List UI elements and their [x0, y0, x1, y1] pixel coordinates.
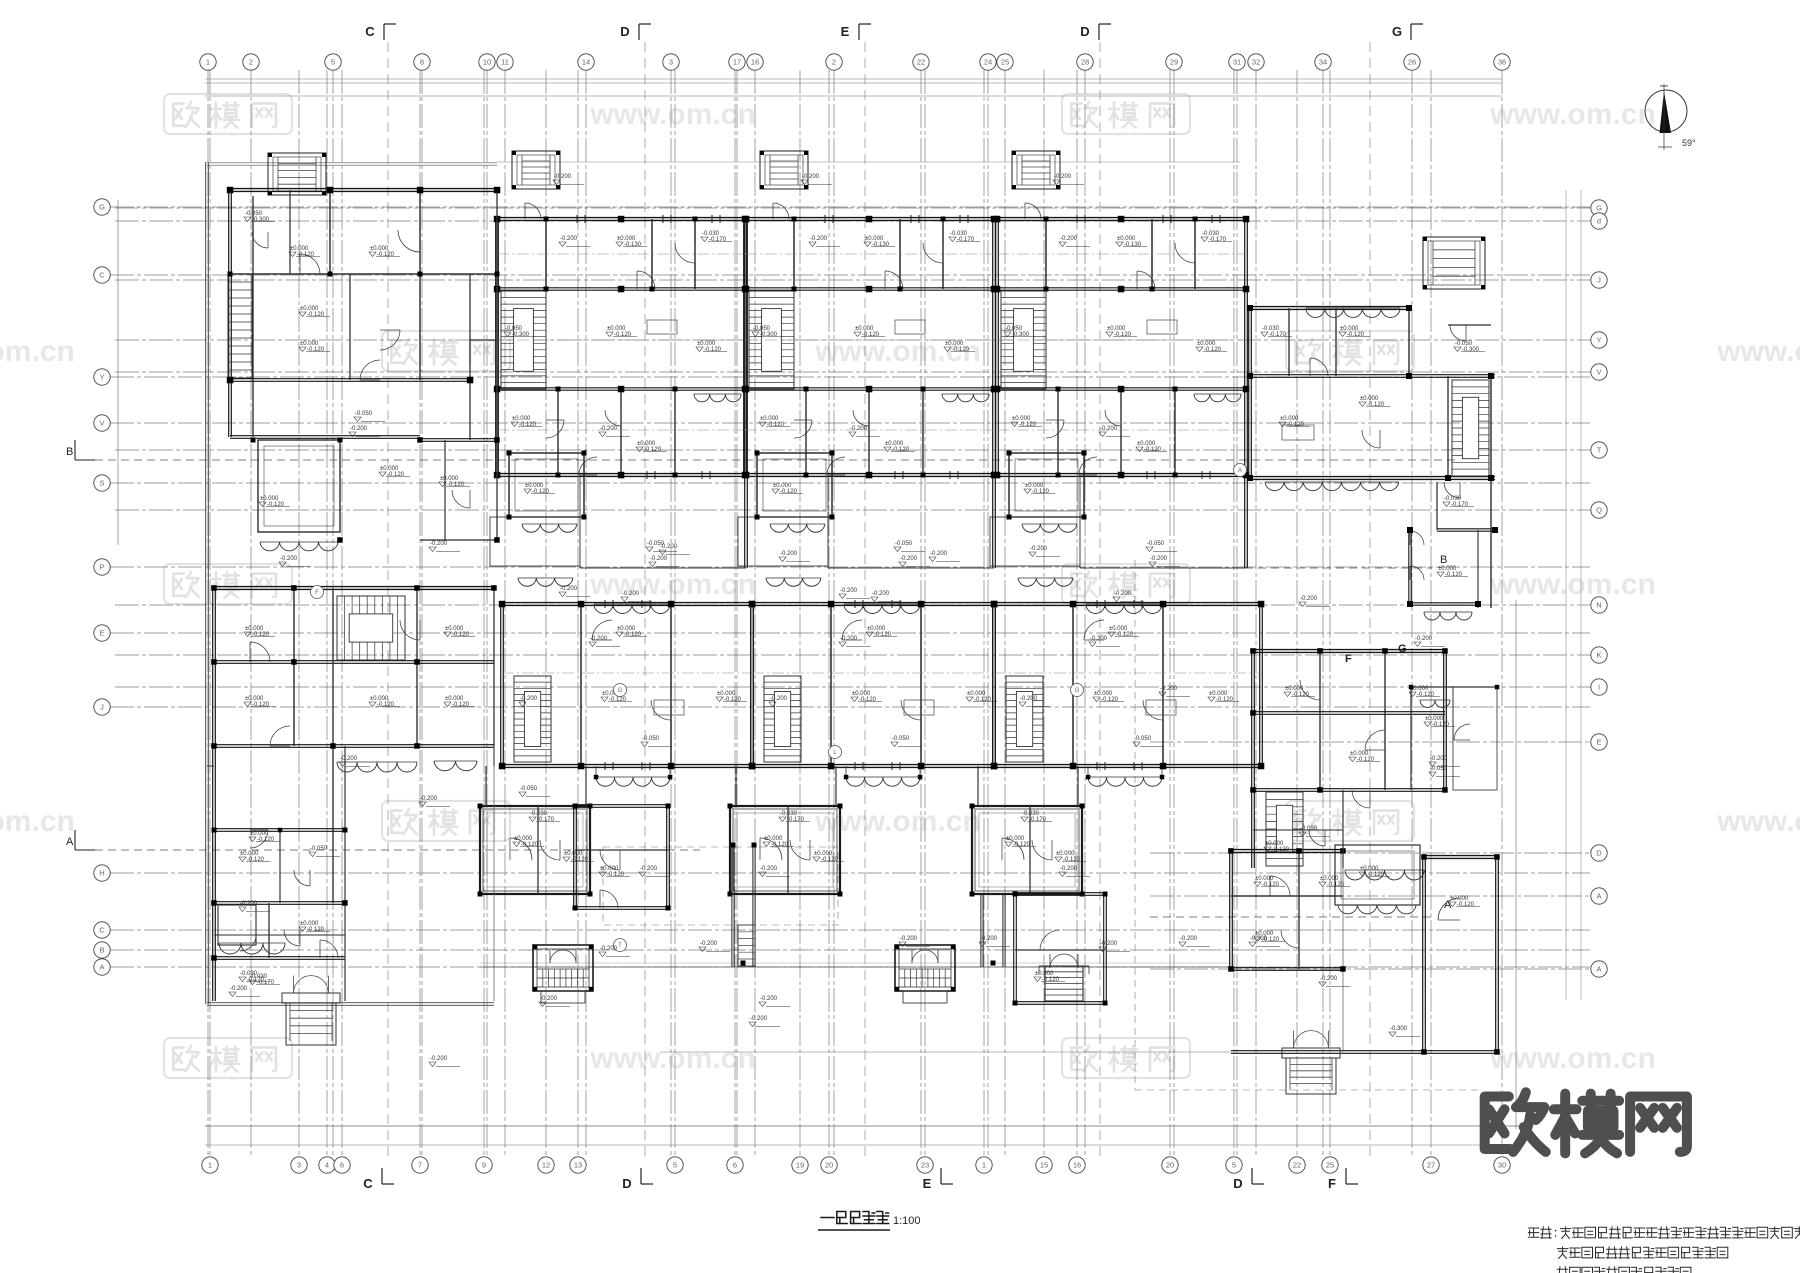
- svg-text:Y: Y: [1596, 336, 1601, 345]
- svg-text:13: 13: [574, 1161, 582, 1170]
- svg-text:-0.120: -0.120: [519, 422, 537, 428]
- svg-text:www.om.cn: www.om.cn: [1716, 805, 1800, 838]
- svg-text:A: A: [1238, 468, 1242, 474]
- svg-text:-0.170: -0.170: [257, 980, 275, 986]
- svg-text:-0.200: -0.200: [900, 936, 918, 942]
- svg-text:31: 31: [1233, 58, 1241, 67]
- svg-text:-0.200: -0.200: [540, 996, 558, 1002]
- svg-text:-0.300: -0.300: [760, 332, 778, 338]
- svg-text:-0.130: -0.130: [872, 242, 890, 248]
- svg-text:-0.200: -0.200: [554, 174, 572, 180]
- svg-text:34: 34: [1319, 58, 1327, 67]
- svg-text:-0.200: -0.200: [850, 426, 868, 432]
- svg-text:24: 24: [984, 58, 992, 67]
- svg-text:-0.120: -0.120: [1116, 632, 1134, 638]
- svg-text:-0.200: -0.200: [700, 941, 718, 947]
- svg-text:P: P: [99, 563, 104, 572]
- svg-text:11: 11: [501, 58, 509, 67]
- svg-text:www.om.cn: www.om.cn: [589, 98, 756, 131]
- svg-text:5: 5: [1232, 1161, 1236, 1170]
- svg-text:-0.130: -0.130: [624, 242, 642, 248]
- svg-text:-0.200: -0.200: [1090, 636, 1108, 642]
- svg-text:I: I: [1598, 683, 1600, 692]
- svg-text:-0.120: -0.120: [1445, 572, 1463, 578]
- svg-text:27: 27: [1427, 1161, 1435, 1170]
- svg-text:-0.120: -0.120: [1101, 697, 1119, 703]
- svg-text:-0.200: -0.200: [1060, 236, 1078, 242]
- svg-text:-0.120: -0.120: [1204, 347, 1222, 353]
- svg-text:10: 10: [483, 58, 491, 67]
- svg-text:B: B: [99, 946, 104, 955]
- svg-text:-0.200: -0.200: [872, 591, 890, 597]
- svg-text:-0.170: -0.170: [537, 817, 555, 823]
- svg-text:15: 15: [1040, 1161, 1048, 1170]
- svg-text:-0.120: -0.120: [874, 632, 892, 638]
- svg-text:20: 20: [1166, 1161, 1174, 1170]
- svg-text:14: 14: [582, 58, 590, 67]
- svg-text:-0.120: -0.120: [1327, 882, 1345, 888]
- svg-text:1: 1: [982, 1161, 986, 1170]
- svg-text:-0.120: -0.120: [307, 312, 325, 318]
- svg-text:2: 2: [832, 58, 836, 67]
- svg-text:-0.200: -0.200: [1054, 174, 1072, 180]
- svg-text:Q: Q: [1596, 506, 1602, 515]
- svg-text:-0.050: -0.050: [520, 786, 538, 792]
- svg-text:-0.200: -0.200: [280, 556, 298, 562]
- svg-text:-0.200: -0.200: [240, 901, 258, 907]
- svg-text:-0.200: -0.200: [1430, 756, 1448, 762]
- svg-text:6: 6: [733, 1161, 737, 1170]
- svg-text:-0.170: -0.170: [709, 237, 727, 243]
- svg-text:-0.200: -0.200: [1415, 636, 1433, 642]
- svg-text:-0.050: -0.050: [1300, 826, 1318, 832]
- svg-text:d: d: [1597, 217, 1601, 226]
- svg-text:-0.050: -0.050: [355, 411, 373, 417]
- svg-text:B: B: [1440, 554, 1447, 566]
- svg-text:16: 16: [1073, 1161, 1081, 1170]
- svg-text:K: K: [1596, 651, 1601, 660]
- svg-text:G: G: [1075, 688, 1080, 694]
- svg-text:-0.200: -0.200: [560, 236, 578, 242]
- svg-text:3: 3: [297, 1161, 301, 1170]
- svg-text:-0.120: -0.120: [307, 347, 325, 353]
- svg-text:25: 25: [1001, 58, 1009, 67]
- svg-text:23: 23: [921, 1161, 929, 1170]
- svg-text:-0.120: -0.120: [1287, 422, 1305, 428]
- svg-text:J: J: [100, 703, 104, 712]
- svg-text:C: C: [99, 926, 105, 935]
- svg-text:E: E: [923, 1176, 932, 1191]
- svg-text:25: 25: [1326, 1161, 1334, 1170]
- svg-text:-0.200: -0.200: [650, 556, 668, 562]
- svg-text:D: D: [1080, 24, 1089, 39]
- svg-text:F: F: [1328, 1176, 1336, 1191]
- svg-text:-0.200: -0.200: [1300, 596, 1318, 602]
- svg-text:-0.300: -0.300: [1012, 332, 1030, 338]
- svg-text:T: T: [618, 943, 622, 949]
- svg-text:-0.120: -0.120: [452, 632, 470, 638]
- svg-text:D: D: [622, 1176, 631, 1191]
- svg-text:-0.170: -0.170: [1451, 502, 1469, 508]
- svg-text:-0.120: -0.120: [1063, 857, 1081, 863]
- svg-text:C: C: [363, 1176, 373, 1191]
- svg-text:-0.200: -0.200: [1030, 546, 1048, 552]
- svg-text:20: 20: [825, 1161, 833, 1170]
- svg-text:-0.200: -0.200: [600, 946, 618, 952]
- svg-text:-0.120: -0.120: [821, 857, 839, 863]
- svg-text:-0.120: -0.120: [1019, 422, 1037, 428]
- svg-text:F: F: [1345, 653, 1352, 665]
- svg-text:-0.200: -0.200: [590, 636, 608, 642]
- svg-text:V: V: [99, 419, 104, 428]
- svg-text:8: 8: [420, 58, 424, 67]
- svg-text:E: E: [99, 629, 104, 638]
- svg-text:G: G: [1392, 24, 1402, 39]
- svg-text:-0.120: -0.120: [1417, 692, 1435, 698]
- svg-text:-0.200: -0.200: [1250, 936, 1268, 942]
- svg-text:-0.050: -0.050: [1134, 736, 1152, 742]
- svg-text:-0.120: -0.120: [1262, 882, 1280, 888]
- svg-text:www.om.cn: www.om.cn: [0, 335, 75, 368]
- svg-text:19: 19: [796, 1161, 804, 1170]
- svg-text:-0.200: -0.200: [1320, 976, 1338, 982]
- svg-text:3: 3: [669, 58, 673, 67]
- svg-text:-0.120: -0.120: [1292, 692, 1310, 698]
- svg-text:17: 17: [733, 58, 741, 67]
- svg-text:-0.200: -0.200: [810, 236, 828, 242]
- svg-text:-0.200: -0.200: [1160, 686, 1178, 692]
- svg-text:-0.200: -0.200: [1180, 936, 1198, 942]
- svg-text:12: 12: [542, 1161, 550, 1170]
- svg-text:-0.120: -0.120: [614, 332, 632, 338]
- svg-text:-0.120: -0.120: [532, 489, 550, 495]
- svg-text:-0.200: -0.200: [230, 986, 248, 992]
- svg-text:-0.120: -0.120: [247, 857, 265, 863]
- svg-text:-0.200: -0.200: [840, 636, 858, 642]
- svg-text:C: C: [365, 24, 375, 39]
- svg-text:-0.120: -0.120: [267, 502, 285, 508]
- svg-text:-0.050: -0.050: [1430, 766, 1448, 772]
- svg-text:16: 16: [751, 58, 759, 67]
- svg-text:C: C: [99, 271, 105, 280]
- svg-text:B: B: [66, 446, 73, 458]
- svg-text:28: 28: [1081, 58, 1089, 67]
- svg-text:www.om.cn: www.om.cn: [589, 568, 756, 601]
- svg-text:-0.120: -0.120: [780, 489, 798, 495]
- svg-text:A: A: [1596, 965, 1601, 974]
- svg-text:-0.120: -0.120: [252, 632, 270, 638]
- svg-text:-0.300: -0.300: [1390, 1026, 1408, 1032]
- svg-text:-0.170: -0.170: [1209, 237, 1227, 243]
- svg-text:-0.200: -0.200: [980, 936, 998, 942]
- svg-text:-0.170: -0.170: [1029, 817, 1047, 823]
- svg-text:-0.200: -0.200: [640, 866, 658, 872]
- svg-text:G: G: [99, 203, 105, 212]
- svg-text:-0.050: -0.050: [310, 846, 328, 852]
- svg-text:A: A: [66, 836, 74, 848]
- svg-text:-0.200: -0.200: [930, 551, 948, 557]
- svg-text:29: 29: [1170, 58, 1178, 67]
- svg-text:-0.200: -0.200: [420, 796, 438, 802]
- svg-text:26: 26: [1408, 58, 1416, 67]
- svg-text:E: E: [1596, 738, 1601, 747]
- svg-text:www.om.cn: www.om.cn: [1489, 1042, 1656, 1075]
- svg-text:-0.120: -0.120: [447, 482, 465, 488]
- svg-text:-0.120: -0.120: [1013, 842, 1031, 848]
- svg-text:-0.200: -0.200: [760, 996, 778, 1002]
- svg-text:-0.300: -0.300: [252, 217, 270, 223]
- svg-text:5: 5: [331, 58, 335, 67]
- svg-text:6: 6: [340, 1161, 344, 1170]
- svg-text:-0.120: -0.120: [1367, 402, 1385, 408]
- svg-text:J: J: [1597, 276, 1601, 285]
- svg-text:A: A: [1596, 892, 1601, 901]
- svg-text:-0.200: -0.200: [622, 591, 640, 597]
- svg-text:1:100: 1:100: [893, 1215, 921, 1227]
- svg-text:A: A: [99, 963, 104, 972]
- svg-text:F: F: [315, 590, 319, 596]
- svg-text:-0.120: -0.120: [862, 332, 880, 338]
- svg-text:7: 7: [418, 1161, 422, 1170]
- svg-text:-0.200: -0.200: [900, 556, 918, 562]
- svg-text:-0.170: -0.170: [787, 817, 805, 823]
- svg-text:1: 1: [206, 58, 210, 67]
- svg-text:-0.200: -0.200: [802, 174, 820, 180]
- svg-text:-0.050: -0.050: [895, 541, 913, 547]
- svg-text:36: 36: [1498, 58, 1506, 67]
- svg-text:-0.200: -0.200: [560, 586, 578, 592]
- svg-text:-0.120: -0.120: [952, 347, 970, 353]
- svg-text:-0.120: -0.120: [1457, 902, 1475, 908]
- svg-text:5: 5: [673, 1161, 677, 1170]
- svg-text:D: D: [1233, 1176, 1242, 1191]
- svg-text:T: T: [1597, 446, 1602, 455]
- svg-text:-0.120: -0.120: [892, 447, 910, 453]
- svg-text:-0.120: -0.120: [377, 252, 395, 258]
- svg-text:-0.120: -0.120: [704, 347, 722, 353]
- svg-text:www.om.cn: www.om.cn: [1716, 335, 1800, 368]
- svg-text:-0.120: -0.120: [1032, 489, 1050, 495]
- svg-text:59°: 59°: [1682, 138, 1696, 148]
- svg-text:-0.200: -0.200: [1100, 941, 1118, 947]
- svg-text:-0.200: -0.200: [780, 551, 798, 557]
- svg-text:-0.120: -0.120: [1114, 332, 1132, 338]
- svg-text:-0.200: -0.200: [1060, 866, 1078, 872]
- svg-text:2: 2: [249, 58, 253, 67]
- svg-text:-0.200: -0.200: [430, 1056, 448, 1062]
- svg-text:Y: Y: [99, 373, 104, 382]
- svg-text:V: V: [1596, 368, 1601, 377]
- svg-text:-0.120: -0.120: [387, 472, 405, 478]
- svg-text:www.om.cn: www.om.cn: [1489, 98, 1656, 131]
- svg-text:www.om.cn: www.om.cn: [1489, 568, 1656, 601]
- svg-text:-0.120: -0.120: [1216, 697, 1234, 703]
- svg-text:www.om.cn: www.om.cn: [589, 1042, 756, 1075]
- svg-text:-0.200: -0.200: [520, 696, 538, 702]
- svg-text:-0.120: -0.120: [607, 872, 625, 878]
- svg-text:-0.120: -0.120: [724, 697, 742, 703]
- svg-text:-0.120: -0.120: [974, 697, 992, 703]
- svg-text:32: 32: [1252, 58, 1260, 67]
- svg-text:-0.120: -0.120: [859, 697, 877, 703]
- svg-text:-0.200: -0.200: [760, 866, 778, 872]
- svg-text:-0.120: -0.120: [644, 447, 662, 453]
- svg-text:-0.200: -0.200: [350, 426, 368, 432]
- svg-text:-0.120: -0.120: [609, 697, 627, 703]
- svg-text:-0.300: -0.300: [512, 332, 530, 338]
- svg-text:-0.170: -0.170: [957, 237, 975, 243]
- svg-text:www.om.cn: www.om.cn: [0, 805, 75, 838]
- svg-text:-0.130: -0.130: [1124, 242, 1142, 248]
- svg-text:-0.200: -0.200: [1020, 696, 1038, 702]
- svg-text:-0.120: -0.120: [1347, 332, 1365, 338]
- svg-text:D: D: [620, 24, 629, 39]
- svg-text:-0.120: -0.120: [1042, 977, 1060, 983]
- svg-text:-0.120: -0.120: [1432, 722, 1450, 728]
- svg-text:-0.200: -0.200: [430, 541, 448, 547]
- svg-text:-0.050: -0.050: [642, 736, 660, 742]
- svg-text:-0.120: -0.120: [521, 842, 539, 848]
- svg-text:G: G: [1596, 204, 1602, 213]
- svg-text:-0.200: -0.200: [1100, 426, 1118, 432]
- svg-text:S: S: [99, 479, 104, 488]
- svg-text:-0.120: -0.120: [624, 632, 642, 638]
- svg-text:-0.200: -0.200: [660, 544, 678, 550]
- svg-text:G: G: [618, 688, 623, 694]
- svg-text:-0.120: -0.120: [771, 842, 789, 848]
- svg-text:E: E: [841, 24, 850, 39]
- svg-text:-0.120: -0.120: [307, 927, 325, 933]
- svg-text:-0.120: -0.120: [377, 702, 395, 708]
- svg-text:-0.050: -0.050: [1147, 541, 1165, 547]
- svg-text:-0.120: -0.120: [297, 252, 315, 258]
- svg-text:-0.200: -0.200: [600, 426, 618, 432]
- svg-text:-0.200: -0.200: [1150, 556, 1168, 562]
- svg-text:-0.200: -0.200: [750, 1016, 768, 1022]
- svg-text:30: 30: [1498, 1161, 1506, 1170]
- svg-text:D: D: [1596, 849, 1602, 858]
- svg-text:22: 22: [1293, 1161, 1301, 1170]
- svg-text:-0.200: -0.200: [840, 588, 858, 594]
- svg-text:4: 4: [325, 1161, 329, 1170]
- svg-text:1: 1: [208, 1161, 212, 1170]
- svg-text:-0.120: -0.120: [252, 702, 270, 708]
- svg-text:-0.170: -0.170: [1269, 332, 1287, 338]
- svg-text:-0.200: -0.200: [1114, 591, 1132, 597]
- svg-text:-0.120: -0.120: [452, 702, 470, 708]
- svg-text:-0.200: -0.200: [770, 696, 788, 702]
- svg-text:-0.050: -0.050: [892, 736, 910, 742]
- svg-text:22: 22: [917, 58, 925, 67]
- svg-text:-0.120: -0.120: [1357, 757, 1375, 763]
- svg-text:-0.120: -0.120: [1144, 447, 1162, 453]
- svg-text:N: N: [1596, 601, 1601, 610]
- svg-text:-0.300: -0.300: [1462, 347, 1480, 353]
- svg-text:9: 9: [482, 1161, 486, 1170]
- svg-text:-0.120: -0.120: [767, 422, 785, 428]
- svg-text:H: H: [99, 869, 104, 878]
- svg-text:-0.200: -0.200: [340, 756, 358, 762]
